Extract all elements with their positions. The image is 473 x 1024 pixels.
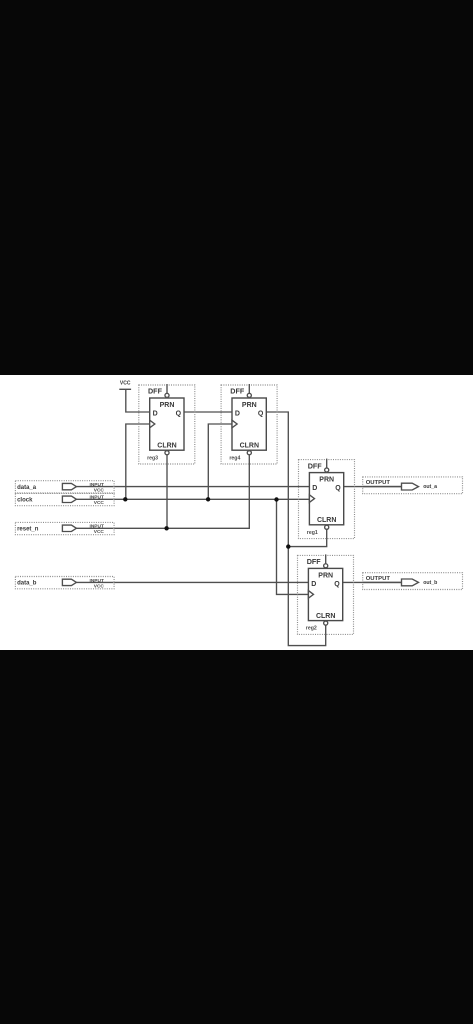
svg-text:VCC: VCC bbox=[120, 381, 131, 387]
svg-text:reg3: reg3 bbox=[147, 455, 158, 461]
svg-text:D: D bbox=[235, 410, 240, 417]
svg-text:OUTPUT: OUTPUT bbox=[366, 480, 391, 486]
svg-text:VCC: VCC bbox=[94, 583, 105, 589]
svg-text:clock: clock bbox=[17, 498, 33, 504]
svg-text:CLRN: CLRN bbox=[317, 517, 336, 524]
svg-text:data_b: data_b bbox=[17, 581, 37, 587]
svg-text:reg2: reg2 bbox=[306, 626, 317, 632]
svg-text:INPUT: INPUT bbox=[89, 524, 103, 530]
svg-text:PRN: PRN bbox=[318, 572, 333, 579]
svg-text:PRN: PRN bbox=[160, 402, 175, 409]
svg-text:OUTPUT: OUTPUT bbox=[366, 576, 391, 582]
svg-text:data_a: data_a bbox=[17, 485, 37, 491]
svg-text:D: D bbox=[153, 410, 158, 417]
svg-text:DFF: DFF bbox=[230, 387, 245, 396]
svg-text:PRN: PRN bbox=[242, 402, 257, 409]
svg-text:DFF: DFF bbox=[307, 557, 322, 566]
svg-text:out_a: out_a bbox=[423, 484, 437, 490]
svg-text:CLRN: CLRN bbox=[316, 613, 335, 620]
svg-text:INPUT: INPUT bbox=[89, 578, 103, 584]
svg-text:Q: Q bbox=[176, 410, 182, 417]
svg-text:Q: Q bbox=[258, 410, 264, 417]
svg-text:DFF: DFF bbox=[308, 461, 323, 470]
svg-text:INPUT: INPUT bbox=[89, 495, 103, 501]
svg-text:D: D bbox=[312, 485, 317, 492]
svg-text:out_b: out_b bbox=[423, 580, 437, 586]
svg-text:VCC: VCC bbox=[94, 500, 105, 506]
svg-text:reg4: reg4 bbox=[229, 455, 240, 461]
svg-text:DFF: DFF bbox=[148, 387, 163, 396]
svg-text:CLRN: CLRN bbox=[240, 443, 259, 450]
svg-text:VCC: VCC bbox=[94, 529, 105, 535]
svg-text:Q: Q bbox=[335, 485, 341, 492]
svg-text:D: D bbox=[311, 581, 316, 588]
svg-text:VCC: VCC bbox=[94, 488, 105, 494]
svg-text:PRN: PRN bbox=[319, 477, 334, 484]
svg-text:reg1: reg1 bbox=[307, 530, 318, 536]
svg-text:Q: Q bbox=[334, 581, 340, 588]
svg-text:INPUT: INPUT bbox=[89, 482, 103, 488]
svg-text:reset_n: reset_n bbox=[17, 527, 39, 533]
svg-text:CLRN: CLRN bbox=[157, 443, 176, 450]
